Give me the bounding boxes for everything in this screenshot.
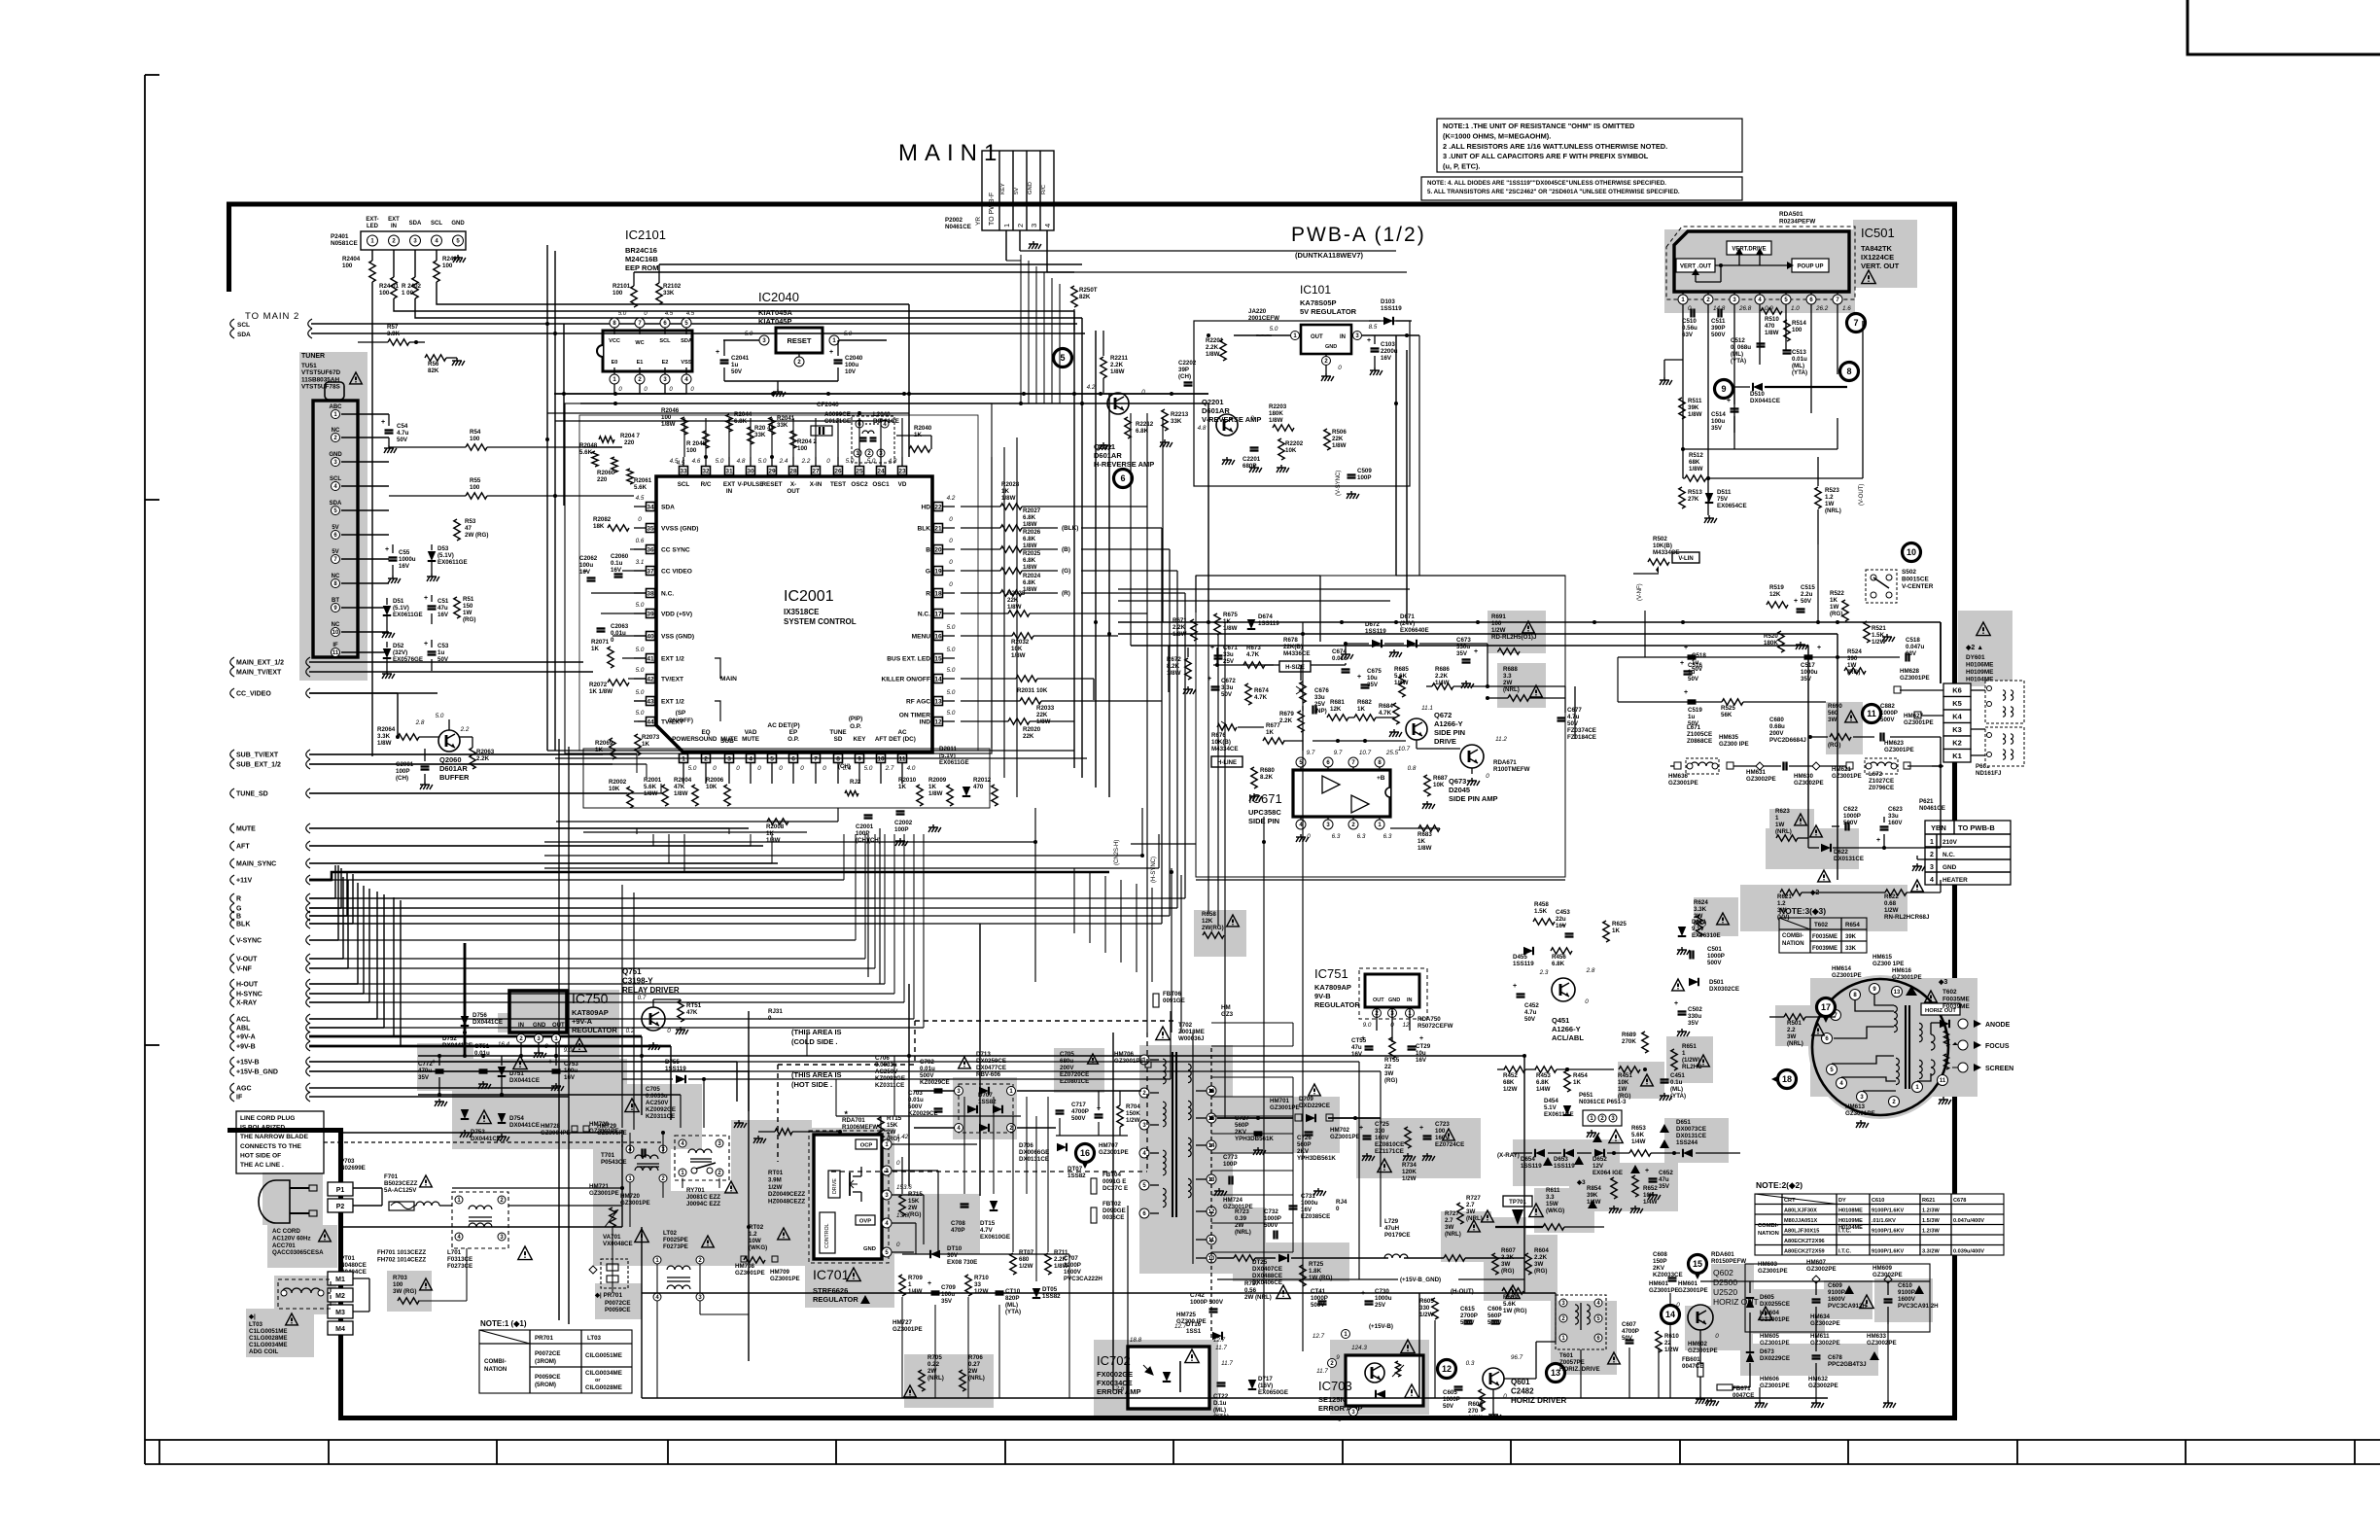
- svg-text:4.7u: 4.7u: [1567, 714, 1580, 720]
- shade: [1441, 1211, 1491, 1262]
- cap l2040: [860, 437, 867, 438]
- shade: [1356, 1118, 1481, 1178]
- svg-text:1000u: 1000u: [1375, 1295, 1392, 1302]
- svg-text:63V: 63V: [1906, 650, 1917, 657]
- svg-text:R56: R56: [428, 361, 439, 367]
- shade: [731, 1120, 812, 1191]
- svg-text:11: 11: [332, 650, 339, 656]
- resistor RT15s: [878, 1117, 884, 1138]
- pin 11: [898, 754, 907, 763]
- svg-text:9V-B: 9V-B: [1314, 992, 1331, 1000]
- svg-text:50V: 50V: [1622, 1335, 1633, 1342]
- svg-text:33: 33: [680, 468, 687, 474]
- svg-text:9: 9: [857, 755, 861, 762]
- resistor R53: [454, 519, 460, 541]
- wire: [750, 457, 752, 466]
- svg-text:210V: 210V: [1942, 839, 1958, 846]
- cap T701c: [641, 1149, 643, 1158]
- svg-text:200V: 200V: [1060, 1065, 1074, 1071]
- wire: [1733, 292, 1735, 295]
- junction: [1565, 1067, 1569, 1071]
- svg-text:75V: 75V: [1717, 496, 1729, 503]
- svg-text:C705: C705: [1060, 1051, 1074, 1058]
- svg-text:Q673: Q673: [1449, 777, 1466, 786]
- svg-text:F701: F701: [384, 1173, 399, 1180]
- svg-text:IN: IN: [391, 224, 397, 229]
- pin 3: [1139, 1120, 1149, 1130]
- svg-text:(1/2W): (1/2W): [1682, 1057, 1700, 1064]
- svg-text:R512: R512: [1689, 452, 1703, 459]
- shade: [805, 1128, 894, 1308]
- svg-text:0.39: 0.39: [1235, 1215, 1247, 1222]
- wire: [1419, 1397, 1915, 1399]
- resistor R704: [1117, 1105, 1123, 1127]
- node MAIN_TV/EXT: [230, 667, 234, 677]
- svg-text:22: 22: [1384, 1064, 1391, 1070]
- svg-text:1.2: 1.2: [1825, 494, 1834, 501]
- svg-text:VD: VD: [898, 481, 907, 488]
- svg-text:COMBI-: COMBI-: [1758, 1223, 1778, 1229]
- svg-text:AC DET(P): AC DET(P): [767, 722, 799, 729]
- svg-text:10K: 10K: [706, 784, 717, 790]
- svg-text:1/8W: 1/8W: [1765, 330, 1779, 336]
- svg-text:6.3: 6.3: [1383, 833, 1392, 840]
- svg-text:(NRL): (NRL): [1503, 686, 1520, 693]
- svg-text:15K: 15K: [887, 1122, 898, 1129]
- wire: [612, 1227, 613, 1293]
- svg-text:2.2K: 2.2K: [1054, 1256, 1067, 1263]
- wire: [639, 384, 641, 394]
- svg-text:IC703: IC703: [1318, 1379, 1352, 1393]
- svg-text:15K: 15K: [908, 1198, 920, 1205]
- cap C675: [1361, 683, 1370, 685]
- svg-text:R2404: R2404: [342, 256, 361, 262]
- ic101 outline: [1194, 321, 1410, 486]
- svg-text:R711: R711: [1054, 1249, 1068, 1256]
- wire: [309, 1096, 569, 1098]
- svg-text:470P: 470P: [951, 1227, 964, 1234]
- wire: [309, 792, 627, 794]
- wire: [1253, 644, 1255, 665]
- shade: [568, 990, 619, 1061]
- wire: [908, 984, 910, 1186]
- svg-text:L2040: L2040: [873, 411, 891, 418]
- wire: [1130, 413, 1132, 646]
- wire: [400, 900, 402, 1046]
- svg-text:3W: 3W: [1828, 717, 1837, 723]
- wire: [363, 886, 365, 994]
- pin 1: [680, 754, 688, 763]
- warning: [959, 1057, 971, 1068]
- wire: [1196, 575, 1320, 577]
- svg-text:IC2101: IC2101: [625, 227, 666, 242]
- svg-text:5.0: 5.0: [947, 647, 956, 653]
- wire: [961, 720, 1008, 722]
- svg-text:180K: 180K: [1269, 410, 1283, 417]
- pin: [679, 1139, 686, 1147]
- svg-text:(3ROM): (3ROM): [535, 1358, 556, 1365]
- svg-text:EZ0720CE: EZ0720CE: [1060, 1071, 1089, 1078]
- wire: [1180, 875, 1182, 1032]
- svg-text:R 2045: R 2045: [686, 440, 707, 447]
- pin 9: [1870, 984, 1880, 995]
- wire: [1487, 651, 1488, 686]
- cap C753: [552, 1068, 561, 1070]
- wire: [309, 993, 364, 995]
- svg-text:11: 11: [1940, 1078, 1946, 1084]
- svg-text:1K: 1K: [595, 747, 603, 753]
- wire: [547, 438, 599, 440]
- resistor R715: [899, 1195, 905, 1216]
- pin 15: [1207, 1113, 1216, 1123]
- wire: [309, 1001, 904, 1003]
- svg-text:ON TIMER: ON TIMER: [899, 713, 930, 719]
- svg-text:2.2K: 2.2K: [1172, 624, 1186, 631]
- svg-text:500V: 500V: [1843, 820, 1858, 826]
- svg-text:1u: 1u: [731, 362, 738, 368]
- svg-text:50V: 50V: [437, 656, 449, 663]
- junction: [857, 411, 861, 415]
- wire: [1112, 1032, 1114, 1056]
- shade: [1233, 1097, 1340, 1153]
- transistor Q451: [1552, 978, 1575, 1001]
- wire: [1238, 726, 1264, 728]
- mosfet: [849, 1172, 851, 1196]
- relay RY701: [675, 1136, 729, 1180]
- diode D717: [1248, 1380, 1257, 1389]
- connector K4: [1943, 710, 1971, 723]
- svg-text:1000u: 1000u: [1301, 1200, 1318, 1207]
- pin 7: [1831, 1010, 1841, 1021]
- svg-text:100u: 100u: [845, 362, 858, 368]
- cap C709: [931, 1290, 940, 1292]
- shade: [1229, 1207, 1266, 1254]
- svg-text:100: 100: [470, 484, 480, 491]
- wire: [1669, 1293, 1671, 1307]
- shade: [1666, 1036, 1713, 1083]
- circled 14: [1662, 1306, 1680, 1324]
- cap C2001: [864, 814, 873, 816]
- svg-text:DY: DY: [1838, 1198, 1846, 1204]
- shade: [1853, 220, 1917, 288]
- svg-text:C514: C514: [1711, 411, 1726, 418]
- n1 grid: [479, 1343, 632, 1345]
- pin 7: [812, 754, 821, 763]
- svg-text:1: 1: [1930, 839, 1934, 846]
- svg-text:CILG0051ME: CILG0051ME: [585, 1352, 622, 1359]
- svg-text:23: 23: [898, 468, 906, 474]
- svg-text:RJ2: RJ2: [850, 779, 861, 786]
- svg-text:(5ROM): (5ROM): [535, 1382, 556, 1388]
- svg-text:2.3: 2.3: [1539, 969, 1549, 976]
- svg-text:KIAT045A: KIAT045A: [758, 308, 792, 317]
- dashed L2040: [852, 416, 894, 463]
- opamp2: [1351, 795, 1369, 813]
- warning: [1810, 825, 1823, 837]
- svg-text:(DUNTKA118WEV7): (DUNTKA118WEV7): [1295, 251, 1364, 260]
- wire: [705, 418, 707, 457]
- svg-text:12.7: 12.7: [1312, 1333, 1325, 1340]
- svg-text:1.0: 1.0: [1791, 305, 1800, 312]
- fuse F701: [389, 1202, 414, 1210]
- svg-text:C622: C622: [1843, 806, 1858, 813]
- svg-text:R451: R451: [1618, 1072, 1632, 1079]
- svg-text:THE NARROW BLADE: THE NARROW BLADE: [240, 1134, 309, 1140]
- wire: [309, 958, 865, 960]
- ground: [1699, 1396, 1701, 1399]
- resistor R2064: [398, 734, 419, 740]
- wire: [837, 773, 839, 784]
- svg-text:Q672: Q672: [1434, 711, 1452, 719]
- svg-text:500V: 500V: [1487, 1319, 1502, 1326]
- svg-text:R658: R658: [1202, 911, 1216, 918]
- wire: [568, 1097, 570, 1324]
- svg-text:1SS119: 1SS119: [1258, 620, 1279, 627]
- wire: [1059, 284, 1061, 403]
- svg-text:R604: R604: [1534, 1247, 1549, 1254]
- wire: [1131, 843, 1196, 845]
- resistor R658: [1203, 932, 1224, 938]
- svg-text:(YTA): (YTA): [1005, 1309, 1021, 1315]
- circled pin: [1342, 1330, 1350, 1339]
- wire: [750, 773, 752, 784]
- wire: [613, 384, 615, 394]
- svg-text:15W: 15W: [1546, 1201, 1558, 1207]
- svg-text:1W: 1W: [1825, 501, 1834, 507]
- wire chevron: [306, 963, 310, 973]
- svg-text:GZ3001PE: GZ3001PE: [1884, 747, 1914, 753]
- resistor R512: [1685, 475, 1706, 481]
- svg-text:12: 12: [934, 718, 942, 725]
- svg-text:11: 11: [1867, 709, 1876, 718]
- resistor R524: [1844, 668, 1866, 674]
- pin 10: [1207, 1253, 1216, 1263]
- svg-text:C615: C615: [1460, 1306, 1475, 1312]
- wire: [792, 773, 794, 784]
- svg-text:C103: C103: [1381, 341, 1395, 348]
- svg-text:43: 43: [647, 698, 654, 705]
- svg-text:IND: IND: [920, 719, 931, 726]
- warning: [725, 1181, 738, 1193]
- shade: [1958, 611, 2012, 686]
- wire: [913, 834, 915, 1019]
- svg-text:2.2K: 2.2K: [476, 755, 490, 762]
- wire: [1292, 1023, 1294, 1046]
- ic IC701 box: [814, 1135, 882, 1259]
- svg-text:R675: R675: [1223, 612, 1238, 618]
- wire: [309, 1061, 737, 1063]
- svg-text:500V: 500V: [1311, 1302, 1325, 1309]
- resistor R456: [1551, 948, 1572, 954]
- svg-text:R525: R525: [1721, 705, 1735, 712]
- svg-text:TO PWB-F: TO PWB-F: [989, 192, 996, 226]
- svg-text:41: 41: [647, 655, 654, 662]
- svg-text:C725: C725: [1375, 1121, 1389, 1128]
- svg-text:EZ0724CE: EZ0724CE: [1435, 1141, 1464, 1148]
- pin 13: [934, 697, 943, 706]
- svg-text:33: 33: [974, 1281, 981, 1288]
- shade: [622, 1084, 702, 1149]
- n2 grid: [1836, 1194, 1837, 1255]
- svg-text:ON/OFF): ON/OFF): [668, 717, 693, 724]
- wire: [943, 635, 955, 637]
- wire: [341, 558, 389, 560]
- svg-text:DX0407CE: DX0407CE: [1252, 1266, 1282, 1273]
- wire: [1971, 689, 1985, 691]
- svg-text:1SS119: 1SS119: [1513, 961, 1534, 967]
- wire: [1492, 1389, 1494, 1412]
- svg-text:(RG): (RG): [463, 616, 475, 623]
- svg-text:VERT. OUT: VERT. OUT: [1861, 262, 1900, 270]
- resistor R2006: [724, 785, 730, 806]
- svg-text:GZ3001PE: GZ3001PE: [1832, 773, 1862, 780]
- svg-text:1/4W: 1/4W: [1435, 680, 1450, 686]
- svg-text:33K: 33K: [663, 290, 675, 297]
- svg-text:1000u: 1000u: [1801, 669, 1818, 676]
- warning: [286, 1313, 298, 1325]
- circled 18: [1778, 1070, 1797, 1089]
- pin 5: [768, 754, 777, 763]
- svg-text:25V: 25V: [1314, 701, 1326, 708]
- svg-text:160V: 160V: [1375, 1135, 1389, 1141]
- fbt pots: [1943, 1031, 1948, 1046]
- outline: [565, 403, 992, 753]
- wire: [341, 509, 389, 511]
- pin 37: [647, 567, 655, 576]
- wire: [621, 1130, 623, 1227]
- svg-text:DT10: DT10: [947, 1245, 962, 1252]
- wire: [641, 1036, 643, 1115]
- wire: [629, 1133, 631, 1153]
- svg-text:16: 16: [934, 633, 942, 640]
- resistor R2044: [726, 414, 732, 432]
- wire: [923, 834, 925, 1028]
- resistor R2213: [1162, 409, 1168, 431]
- svg-text:DX0441CE: DX0441CE: [472, 1019, 503, 1026]
- svg-text:R691: R691: [1491, 613, 1506, 620]
- svg-text:16.4: 16.4: [498, 1041, 510, 1048]
- svg-text:D53: D53: [437, 545, 449, 552]
- junction: [1301, 632, 1305, 636]
- svg-text:D090GE: D090GE: [1102, 1207, 1126, 1214]
- svg-text:5V: 5V: [1014, 188, 1020, 194]
- svg-text:5: 5: [1060, 353, 1065, 363]
- wire: [1346, 643, 1369, 645]
- svg-text:1: 1: [908, 1281, 912, 1288]
- pin 24: [877, 467, 886, 475]
- svg-text:QACC03065CESA: QACC03065CESA: [272, 1249, 324, 1256]
- svg-text:2KV: 2KV: [1653, 1265, 1665, 1272]
- resistor R610: [1656, 1331, 1662, 1352]
- ic IC501 module: [1674, 231, 1849, 292]
- cap C730: [1365, 1300, 1374, 1302]
- resistor R609: [1502, 1288, 1523, 1294]
- svg-text:RT01: RT01: [768, 1170, 784, 1176]
- resistor R690: [1830, 734, 1851, 740]
- cap C731: [1289, 1205, 1298, 1207]
- wire: [341, 413, 389, 415]
- svg-text:220: 220: [597, 476, 608, 483]
- svg-text:5: 5: [770, 755, 774, 762]
- resistor R651: [1671, 1049, 1677, 1070]
- resistor R2211: [1101, 357, 1106, 378]
- wire: [652, 834, 654, 846]
- svg-text:R682: R682: [1357, 699, 1372, 706]
- svg-text:0: 0: [713, 765, 717, 772]
- wire: [1759, 304, 1761, 365]
- wire: [1046, 230, 1048, 272]
- warning: [625, 1099, 639, 1112]
- node SDA: [230, 329, 234, 338]
- svg-text:33u: 33u: [1314, 694, 1325, 701]
- wire: [309, 1018, 914, 1020]
- svg-text:P2401: P2401: [331, 233, 349, 240]
- svg-text:AC250V: AC250V: [646, 1100, 669, 1106]
- resistor R682: [1354, 715, 1376, 720]
- wire: [641, 1227, 643, 1398]
- svg-text:HM613: HM613: [1845, 1103, 1866, 1110]
- warning: [1277, 1285, 1290, 1299]
- shade: [1745, 1289, 1825, 1334]
- svg-text:R683: R683: [1417, 831, 1432, 838]
- pin 4: [882, 1218, 892, 1228]
- svg-text:42: 42: [647, 676, 654, 682]
- resistor R451: [1619, 1067, 1640, 1072]
- cap C2062: [587, 577, 596, 578]
- wire: [382, 1205, 389, 1207]
- svg-text:3.3/2W: 3.3/2W: [1922, 1249, 1940, 1255]
- svg-text:0.8: 0.8: [1408, 765, 1417, 772]
- svg-text:L671: L671: [1687, 724, 1701, 731]
- svg-text:50V: 50V: [1524, 1016, 1536, 1023]
- wire: [728, 828, 730, 834]
- resistor R522: [1842, 600, 1848, 621]
- pin 4: [1837, 1078, 1847, 1089]
- pot R678: [1300, 682, 1306, 703]
- junction: [553, 332, 557, 335]
- n2 grid: [1755, 1244, 2004, 1246]
- wire: [376, 892, 378, 1019]
- svg-text:1K: 1K: [928, 784, 936, 790]
- svg-text:ABL: ABL: [236, 1026, 251, 1032]
- resistor R2032: [1012, 633, 1033, 639]
- wire: [1051, 278, 1053, 403]
- svg-text:D654: D654: [1521, 1156, 1535, 1163]
- svg-text:1.6: 1.6: [1842, 305, 1851, 312]
- wire: [309, 763, 647, 765]
- resistor R710: [965, 1275, 971, 1296]
- svg-text:C1LG0034ME: C1LG0034ME: [249, 1342, 288, 1348]
- junction: [1207, 333, 1210, 337]
- warning: [1088, 1054, 1099, 1064]
- posistor PR701: [601, 1259, 628, 1288]
- svg-text:IC701: IC701: [813, 1267, 850, 1282]
- wire: [309, 897, 875, 899]
- svg-text:0.047u: 0.047u: [1906, 644, 1924, 650]
- transistor Q2211: [1107, 393, 1129, 414]
- svg-text:(V-SYNC): (V-SYNC): [1336, 471, 1342, 496]
- svg-text:150K: 150K: [1126, 1110, 1140, 1117]
- svg-text:2: 2: [1930, 852, 1934, 858]
- warning small: [1588, 1200, 1597, 1208]
- svg-text:(ML): (ML): [1731, 351, 1743, 358]
- resistor R680: [1251, 767, 1257, 788]
- svg-text:47K: 47K: [674, 784, 685, 790]
- svg-text:DX0488CE: DX0488CE: [1252, 1273, 1282, 1279]
- svg-text:BLK: BLK: [917, 526, 930, 533]
- svg-text:330u: 330u: [1688, 1013, 1701, 1020]
- svg-text:D653: D653: [1554, 1156, 1568, 1163]
